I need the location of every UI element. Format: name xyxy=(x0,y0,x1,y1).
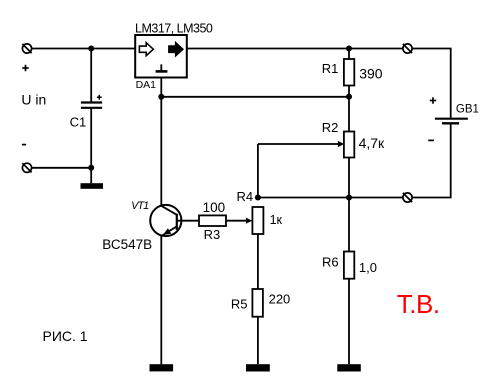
output solid arrow inside DA1 xyxy=(169,43,183,56)
wire R5 bottom lead xyxy=(257,317,259,365)
svg-text:LM317, LM350: LM317, LM350 xyxy=(135,22,213,36)
node C1 top junction xyxy=(88,46,94,52)
resistor R5 xyxy=(252,289,263,317)
capacitor C1 xyxy=(81,103,102,108)
svg-text:220: 220 xyxy=(269,291,291,306)
svg-text:R3: R3 xyxy=(204,227,221,242)
wire base to R3 xyxy=(177,220,199,222)
transistor VT1 xyxy=(150,205,181,236)
svg-text:C1: C1 xyxy=(70,114,87,129)
label - for input xyxy=(22,144,26,146)
wire R2 wiper arrow xyxy=(258,141,344,147)
node C1 bottom junction xyxy=(88,165,94,171)
input terminal + (top left) xyxy=(22,44,31,53)
ground below R5 xyxy=(246,364,270,371)
wire top rail from input terminal to DA1 xyxy=(32,48,135,50)
svg-text:100: 100 xyxy=(203,200,226,215)
wire bottom-left from input terminal to C1 xyxy=(32,167,91,169)
output terminal - (bottom right) xyxy=(403,193,412,202)
svg-text:VT1: VT1 xyxy=(131,200,149,212)
wire R6 bottom lead xyxy=(348,279,350,365)
node R1 bottom junction xyxy=(346,94,352,100)
label + for input xyxy=(22,65,28,71)
resistor R1 xyxy=(344,59,354,86)
op-amp U1 regulator DA1 box xyxy=(135,35,187,78)
wire R2 top lead xyxy=(348,97,350,132)
svg-text:R6: R6 xyxy=(322,254,339,269)
ground symbol inside DA1 xyxy=(156,64,168,71)
svg-text:R1: R1 xyxy=(322,61,339,76)
wire emitter down to ground xyxy=(160,236,162,365)
resistor R4 (trimmer) xyxy=(252,207,263,234)
svg-text:R2: R2 xyxy=(322,120,339,135)
wire C1 top xyxy=(90,49,92,102)
ground below VT1 xyxy=(150,364,174,371)
svg-text:R5: R5 xyxy=(231,296,248,311)
label - for battery xyxy=(428,139,434,141)
label + for battery xyxy=(430,97,436,103)
resistor R2 (trimmer) xyxy=(344,132,354,158)
svg-text:GB1: GB1 xyxy=(456,103,479,115)
wire DA1 adj pin down xyxy=(160,78,162,97)
svg-text:U in: U in xyxy=(21,92,46,108)
ground below R6 xyxy=(337,364,361,371)
resistor R3 xyxy=(199,215,226,226)
svg-text:R4: R4 xyxy=(237,189,254,204)
wire R2 bottom lead xyxy=(348,158,350,198)
svg-text:390: 390 xyxy=(359,66,383,82)
wire adj row from DA1 to R1 bottom xyxy=(161,96,349,98)
wire R3 to R4 wiper arrow xyxy=(226,218,252,224)
svg-text:DA1: DA1 xyxy=(136,79,157,91)
wire R4 bottom to R5 xyxy=(257,234,259,289)
wire R2 wiper down to R4 node xyxy=(257,144,259,198)
wire middle row R4 to output terminal xyxy=(258,197,403,199)
wire R6 top lead xyxy=(348,198,350,252)
svg-text:1,0: 1,0 xyxy=(359,260,377,275)
input terminal - (bottom left) xyxy=(22,163,31,172)
output terminal + (top right) xyxy=(403,44,412,53)
wire R1 bottom lead xyxy=(348,86,350,97)
wire R1 top lead xyxy=(348,49,350,60)
svg-text:4,7к: 4,7к xyxy=(359,135,385,151)
wire collector from adj node down xyxy=(160,97,162,206)
wire battery bottom to output terminal xyxy=(412,124,451,197)
label + for C1 xyxy=(97,95,102,100)
wire DA1 output to output terminal xyxy=(187,48,403,50)
resistor R6 xyxy=(344,252,354,279)
node adj junction at DA1 xyxy=(158,94,164,100)
svg-text:T.B.: T.B. xyxy=(397,289,440,319)
svg-text:ВС547В: ВС547В xyxy=(102,237,152,252)
svg-text:РИС. 1: РИС. 1 xyxy=(43,328,88,344)
wire C1 bottom xyxy=(90,108,92,183)
battery GB1 xyxy=(435,119,468,124)
node R4 top junction xyxy=(255,195,261,201)
ground below C1 xyxy=(81,183,104,189)
input open arrow inside DA1 xyxy=(139,43,153,56)
node R6 top junction xyxy=(346,195,352,201)
node R1 top junction xyxy=(346,46,352,52)
svg-text:1к: 1к xyxy=(270,213,283,227)
wire output terminal to right rail top xyxy=(412,49,451,118)
